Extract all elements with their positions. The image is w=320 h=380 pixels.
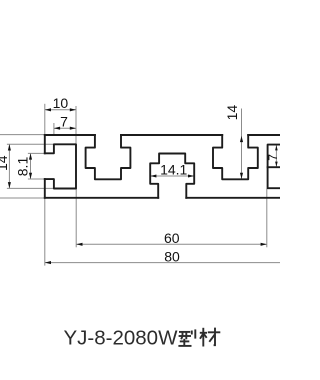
svg-text:60: 60: [164, 230, 180, 246]
svg-text:80: 80: [164, 248, 180, 264]
svg-text:7: 7: [266, 154, 280, 161]
svg-text:YJ-8-2080W: YJ-8-2080W: [64, 327, 179, 350]
svg-text:7: 7: [60, 114, 68, 130]
svg-text:10: 10: [53, 95, 69, 111]
svg-text:14: 14: [0, 155, 10, 171]
svg-text:14.1: 14.1: [160, 162, 187, 178]
svg-text:14: 14: [224, 105, 240, 121]
svg-text:8.1: 8.1: [15, 157, 31, 177]
